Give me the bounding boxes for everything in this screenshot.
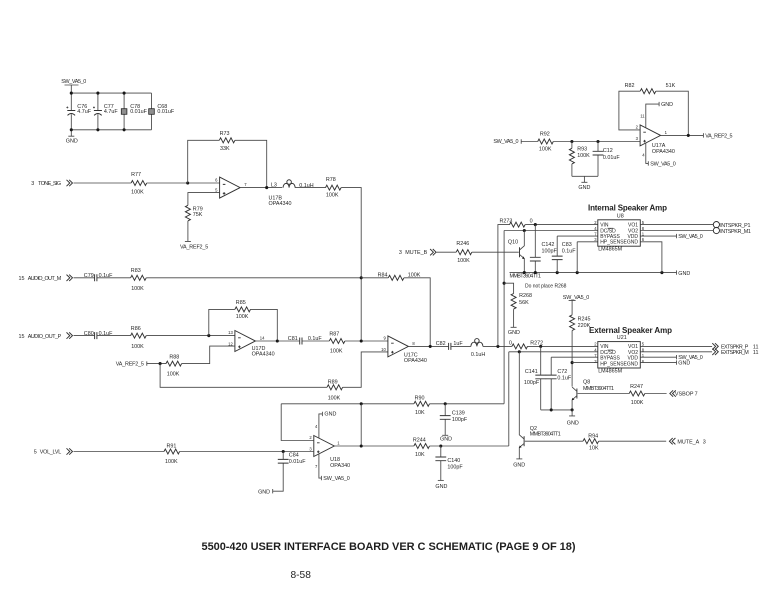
- wire port to C80: [74, 335, 95, 337]
- svg-text:HP_SENSE: HP_SENSE: [600, 240, 627, 246]
- resistor R82: [625, 83, 676, 94]
- wire R85 feedback loop: [209, 309, 277, 341]
- resistor R245: [570, 315, 591, 331]
- node VA_REF2_5 (R88 line): [116, 361, 166, 367]
- svg-text:1uF: 1uF: [453, 341, 463, 347]
- svg-text:0.01uF: 0.01uF: [289, 459, 306, 465]
- svg-text:Do not place R268: Do not place R268: [525, 283, 567, 289]
- wire U17B plus input to R79: [188, 193, 220, 206]
- svg-text:100K: 100K: [167, 372, 180, 378]
- wire R94 to MUTE_A port: [599, 440, 667, 442]
- wire R87 to U17C inverting input: [345, 340, 388, 342]
- wire U8 VO2 to INTSPKR_M1: [640, 230, 713, 232]
- node C139 junction: [444, 402, 447, 405]
- wire U21 VO1 to EXTSPKR_P: [640, 345, 712, 347]
- node R88/VA_REF junction: [159, 362, 162, 365]
- resistor R79: [185, 205, 202, 221]
- op-amp U17B: [215, 177, 291, 207]
- svg-text:R90: R90: [415, 396, 425, 402]
- capacitor C140: [435, 446, 463, 480]
- svg-text:100K: 100K: [236, 314, 249, 320]
- svg-text:GND: GND: [513, 462, 525, 468]
- capacitor C77: [93, 93, 118, 130]
- resistor R73: [219, 131, 235, 152]
- node C141 junction: [539, 345, 542, 348]
- ground (R93/C12): [572, 176, 598, 191]
- wire U17A bottom pin to SW_VA5_0: [642, 143, 675, 167]
- svg-text:C142: C142: [542, 242, 555, 248]
- svg-text:C140: C140: [447, 458, 460, 464]
- svg-text:INTSPKR_M1: INTSPKR_M1: [720, 229, 751, 235]
- capacitor C82: [436, 341, 464, 350]
- port AUDIO_OUT_P (sheet 15): [19, 332, 73, 339]
- node U17B minus junction: [186, 181, 189, 184]
- resistor R246: [456, 241, 472, 264]
- svg-text:GND: GND: [567, 421, 579, 427]
- wire Q8 base to R247: [578, 393, 630, 395]
- wire TONE_SIG to R77: [74, 182, 132, 184]
- wire U8 VO1 to INTSPKR_P1: [640, 224, 713, 226]
- svg-text:R86: R86: [131, 326, 141, 332]
- svg-text:OPA4340: OPA4340: [269, 201, 292, 207]
- resistor R273 (0 ohm, internal feed): [500, 218, 533, 227]
- node C84 junction: [282, 450, 285, 453]
- capacitor C78: [121, 93, 147, 130]
- wire VOL_LVL to R91: [74, 451, 165, 453]
- resistor R83: [131, 268, 147, 292]
- svg-text:0.1uH: 0.1uH: [471, 352, 485, 358]
- svg-text:GND: GND: [661, 102, 673, 108]
- wire R82 feedback loop: [619, 91, 688, 135]
- svg-text:C72: C72: [557, 369, 567, 375]
- svg-text:0.1uF: 0.1uF: [99, 273, 113, 279]
- svg-text:100K: 100K: [577, 153, 590, 159]
- svg-text:VSBOP: VSBOP: [675, 392, 694, 398]
- wire U18 output feedback vertical: [360, 404, 362, 446]
- svg-text:R88: R88: [169, 354, 179, 360]
- svg-text:R92: R92: [540, 131, 550, 137]
- svg-text:GND: GND: [627, 240, 639, 246]
- wire C79 to R83: [97, 277, 131, 279]
- capacitor C142: [530, 225, 558, 273]
- wire R273 to U8 VIN: [525, 224, 598, 226]
- port INTSPKR_P1: [713, 222, 750, 230]
- resistor R85: [235, 300, 251, 320]
- svg-text:C82: C82: [436, 341, 446, 347]
- svg-text:R268: R268: [519, 293, 532, 299]
- svg-text:10: 10: [381, 347, 386, 352]
- wire U17A output: [661, 134, 704, 136]
- resistor R247: [629, 384, 645, 406]
- capacitor C83 (bypass): [552, 236, 576, 273]
- wire R77 to U17B inverting input: [147, 182, 220, 184]
- capacitor C68: [149, 93, 175, 130]
- svg-text:MMBT3904TT1: MMBT3904TT1: [530, 432, 561, 438]
- wire volume V1 vertical (int DC/SD to R90): [503, 231, 505, 404]
- wire internal DC/SD line: [504, 230, 598, 232]
- wire U17D plus input to R88 line: [182, 346, 235, 364]
- svg-text:GND: GND: [258, 489, 270, 495]
- svg-text:100K: 100K: [539, 146, 552, 152]
- svg-text:AUDIO_OUT_M: AUDIO_OUT_M: [28, 276, 62, 282]
- node audio feed junction: [496, 345, 499, 348]
- node SW_VA5_0 (R245 pull-up): [563, 295, 590, 315]
- capacitor C72 (bypass): [546, 357, 572, 410]
- svg-text:75K: 75K: [193, 212, 203, 218]
- node SW_VA5_0 (U21 VDD): [640, 355, 703, 361]
- resistor R77: [131, 172, 147, 195]
- svg-text:C139: C139: [452, 410, 465, 416]
- op-amp U18: [309, 435, 350, 469]
- op-amp U17D: [228, 330, 274, 357]
- wire Q2 base to R94: [525, 440, 583, 442]
- inductor 0.1uH (external feed): [471, 339, 485, 358]
- wire C80 to R86: [97, 335, 131, 337]
- port MUTE_A (sheet 3): [669, 438, 705, 445]
- wire cap bank top rail: [71, 92, 151, 94]
- port INTSPKR_M1: [713, 227, 751, 235]
- svg-text:100pF: 100pF: [452, 417, 468, 423]
- wire R244 to V2 vertical: [430, 445, 509, 447]
- svg-text:MUTE_A: MUTE_A: [677, 439, 699, 445]
- wire MUTE_B to Q10 base: [472, 251, 519, 253]
- svg-text:33K: 33K: [220, 146, 230, 152]
- svg-text:10K: 10K: [589, 445, 599, 451]
- wire U21 BYPASS: [551, 356, 598, 358]
- svg-text:VA_REF2_5: VA_REF2_5: [116, 361, 144, 367]
- node C140 junction: [439, 444, 442, 447]
- svg-text:Q10: Q10: [508, 239, 518, 245]
- svg-text:R245: R245: [578, 316, 591, 322]
- wire inductor to VIN node: [483, 345, 512, 347]
- svg-text:0.1uF: 0.1uF: [557, 376, 571, 382]
- IC U21 LM4865M (external amp): [589, 326, 672, 375]
- svg-text:15: 15: [19, 276, 25, 282]
- node C12 junction: [596, 140, 599, 143]
- svg-text:GND: GND: [440, 437, 452, 443]
- wire U18 bottom pin to SW_VA5_0: [315, 454, 350, 482]
- svg-text:U18: U18: [330, 457, 340, 463]
- svg-text:5: 5: [34, 449, 37, 455]
- svg-text:0.1uF: 0.1uF: [99, 331, 113, 337]
- svg-text:MUTE_B: MUTE_B: [405, 250, 427, 256]
- junction dots cap bank: [70, 92, 126, 132]
- resistor R90: [414, 396, 430, 416]
- svg-text:R246: R246: [456, 241, 469, 247]
- resistor R84 (U17C feedback): [361, 273, 430, 347]
- resistor R244: [413, 438, 430, 458]
- svg-text:GND: GND: [678, 361, 690, 367]
- ground (cap bank): [66, 130, 78, 145]
- capacitor C139: [440, 404, 468, 436]
- svg-text:15: 15: [19, 334, 25, 340]
- svg-text:100K: 100K: [165, 459, 178, 465]
- ground (C140): [435, 480, 447, 490]
- svg-text:HP_SENSE: HP_SENSE: [600, 361, 627, 367]
- op-amp U17A: [636, 125, 675, 155]
- svg-text:GND: GND: [678, 271, 690, 277]
- node U17C output junction: [429, 345, 432, 348]
- transistor Q2 MMBT3904TT1: [519, 352, 561, 459]
- wire cap bank bottom rail: [71, 129, 151, 131]
- node R93 junction: [570, 140, 573, 143]
- wire U18 output to R244: [334, 445, 414, 447]
- node U17A output junction: [687, 134, 690, 137]
- wire U8 BYPASS: [557, 235, 598, 237]
- resistor R78: [326, 177, 342, 199]
- svg-text:10K: 10K: [415, 410, 425, 416]
- node U17D output junction: [276, 339, 279, 342]
- node VA_REF2_5 (U17A output): [703, 133, 732, 139]
- wire C81 to R87: [302, 340, 329, 342]
- resistor R92: [538, 131, 554, 152]
- wire external DC/SD line: [509, 351, 598, 353]
- op-amp U17C: [381, 336, 427, 365]
- svg-text:OPA340: OPA340: [330, 463, 350, 469]
- IC U8 LM4865M (internal amp): [588, 204, 667, 253]
- wire U8 HP_SENSE to GND rail: [577, 242, 598, 273]
- svg-text:13: 13: [228, 330, 233, 335]
- svg-text:SW_VA5_0: SW_VA5_0: [61, 79, 86, 85]
- wire L3 to R78: [295, 187, 325, 189]
- svg-text:SW_VA5_0: SW_VA5_0: [678, 234, 703, 240]
- svg-text:R89: R89: [328, 379, 338, 385]
- resistor R86: [131, 326, 147, 350]
- junction dots on GND rail: [523, 271, 664, 274]
- wire MUTE_B to R246: [437, 251, 457, 253]
- ground (internal rail label): [677, 270, 691, 276]
- transistor Q8 MMBT3904TT1: [572, 380, 614, 410]
- port EXTSPKR_M (sheet 11): [712, 349, 758, 356]
- svg-text:C84: C84: [289, 453, 299, 459]
- svg-text:AUDIO_OUT_P: AUDIO_OUT_P: [28, 334, 62, 340]
- svg-text:C81: C81: [288, 336, 298, 342]
- capacitor C141: [524, 346, 546, 410]
- node C72 bottom junction: [550, 408, 553, 411]
- svg-text:4.7uF: 4.7uF: [104, 109, 118, 115]
- svg-text:51K: 51K: [666, 83, 676, 89]
- port AUDIO_OUT_M (sheet 15): [19, 275, 73, 282]
- port VOL_LVL (sheet 5): [34, 448, 73, 455]
- svg-text:R244: R244: [413, 438, 426, 444]
- wire R272 to U21 VIN: [528, 345, 598, 347]
- ground (C84): [258, 489, 273, 495]
- node C142 junction: [534, 223, 537, 226]
- ground (R268): [508, 309, 520, 336]
- wire R86 to U17D inverting input: [146, 335, 235, 337]
- svg-text:C80: C80: [84, 331, 94, 337]
- wire U8 GND pin to rail: [640, 242, 662, 273]
- svg-text:3: 3: [31, 181, 34, 187]
- svg-text:100pF: 100pF: [447, 465, 463, 471]
- svg-text:0: 0: [509, 340, 512, 346]
- resistor R87: [329, 332, 345, 355]
- svg-text:GND: GND: [435, 484, 447, 490]
- svg-text:OPA4340: OPA4340: [404, 358, 427, 364]
- svg-text:TONE_SIG: TONE_SIG: [38, 181, 61, 187]
- ground (C139): [440, 435, 452, 442]
- capacitor C76: [66, 93, 91, 130]
- svg-text:7: 7: [695, 392, 698, 398]
- svg-text:OPA4340: OPA4340: [652, 149, 675, 155]
- svg-text:C12: C12: [603, 148, 613, 154]
- svg-text:100K: 100K: [326, 192, 339, 198]
- svg-text:100K: 100K: [131, 344, 144, 350]
- svg-text:R94: R94: [588, 434, 598, 440]
- svg-text:SW_VA5_0: SW_VA5_0: [323, 476, 350, 482]
- wire R92 to U17A plus input: [553, 141, 640, 143]
- wire external mini GND rail: [541, 409, 572, 411]
- svg-text:3: 3: [703, 439, 706, 445]
- resistor R268: [511, 293, 532, 309]
- svg-text:10K: 10K: [415, 452, 425, 458]
- svg-text:100K: 100K: [328, 396, 341, 402]
- ground (Q2 emitter): [513, 459, 525, 469]
- svg-text:External Speaker Amp: External Speaker Amp: [589, 326, 672, 335]
- capacitor C79: [84, 273, 113, 281]
- wire U21 HP_SENSE: [572, 362, 598, 364]
- wire internal GND rail: [510, 272, 677, 274]
- svg-text:VOL_LVL: VOL_LVL: [40, 449, 61, 455]
- svg-text:5500-420 USER INTERFACE BOARD: 5500-420 USER INTERFACE BOARD VER C SCHE…: [202, 541, 576, 553]
- svg-text:R78: R78: [326, 177, 336, 183]
- wire U17B output: [240, 187, 282, 189]
- transistor Q10 MMBT3904TT1: [508, 231, 541, 280]
- svg-text:100K: 100K: [631, 400, 644, 406]
- resistor R91: [164, 443, 180, 465]
- node U17B output junction: [265, 186, 268, 189]
- wire R89 to U17C plus input: [343, 352, 388, 387]
- wire to R268: [504, 283, 513, 293]
- node VA_REF2_5 (under R79): [180, 221, 208, 251]
- node HP_SENSE/Q8 junction: [571, 361, 574, 364]
- wire R245 down to HP_SENSE node and Q8 collector: [571, 331, 573, 387]
- svg-text:SW_VA5_0: SW_VA5_0: [563, 295, 590, 301]
- svg-text:11: 11: [640, 114, 645, 119]
- svg-text:GND: GND: [508, 330, 520, 336]
- port TONE_SIG (sheet 3): [31, 180, 72, 187]
- wire C82 to inductor: [451, 345, 471, 347]
- svg-text:C141: C141: [525, 369, 538, 375]
- svg-text:R73: R73: [220, 131, 230, 137]
- svg-text:56K: 56K: [519, 300, 529, 306]
- svg-text:0.01uF: 0.01uF: [130, 109, 147, 115]
- node U18 feedback junction: [360, 402, 363, 405]
- svg-text:8-58: 8-58: [291, 570, 312, 581]
- node AUDIO_OUT_M / R84 junction: [360, 276, 363, 279]
- svg-text:100K: 100K: [330, 349, 343, 355]
- wire port to C79: [74, 277, 95, 279]
- svg-text:100pF: 100pF: [542, 248, 558, 254]
- svg-text:0: 0: [530, 219, 533, 225]
- wire R90 volume line: [281, 403, 504, 405]
- wire volume V2 vertical (ext DC/SD to R244): [508, 352, 510, 446]
- node Q8 emitter junction: [571, 408, 574, 411]
- svg-text:U8: U8: [617, 213, 624, 219]
- port EXTSPKR_P (sheet 11): [712, 343, 758, 350]
- svg-text:SW_VA5_0: SW_VA5_0: [493, 139, 518, 145]
- ground (Q8 emitter): [567, 410, 579, 427]
- svg-text:R91: R91: [167, 443, 177, 449]
- svg-text:R87: R87: [329, 332, 339, 338]
- node SW_VA5_0 (cap bank supply label): [61, 79, 86, 93]
- svg-text:OPA4340: OPA4340: [252, 352, 275, 358]
- wire U18 top pin to GND: [315, 412, 336, 438]
- resistor R93: [569, 142, 590, 177]
- svg-text:R77: R77: [131, 172, 141, 178]
- wire R78 down to U17C inverting line: [341, 188, 361, 341]
- node U17C minus junction: [360, 339, 363, 342]
- node U17D minus junction: [207, 334, 210, 337]
- capacitor C80: [84, 331, 113, 339]
- resistor R272 (0 ohm, external feed): [509, 340, 543, 349]
- svg-text:R85: R85: [236, 300, 246, 306]
- node SW_VA5_0 (U8 VDD): [640, 234, 703, 240]
- capacitor C84: [273, 452, 307, 492]
- inductor L3 0.1uH: [271, 180, 314, 189]
- wire audio node up to R273: [498, 225, 510, 347]
- capacitor C12: [593, 142, 621, 177]
- svg-text:C83: C83: [562, 242, 572, 248]
- svg-text:U21: U21: [617, 335, 627, 341]
- port MUTE_B (sheet 3): [399, 249, 436, 256]
- wire R83 to junction: [146, 277, 361, 279]
- svg-text:12: 12: [228, 341, 233, 346]
- svg-text:R82: R82: [625, 83, 635, 89]
- resistor R94: [583, 434, 599, 452]
- svg-text:EXTSPKR_M: EXTSPKR_M: [721, 350, 749, 356]
- svg-text:GND: GND: [324, 412, 336, 418]
- svg-text:L3: L3: [271, 183, 277, 189]
- wire R73 feedback loop: [188, 140, 267, 187]
- svg-text:VA_REF2_5: VA_REF2_5: [180, 245, 208, 251]
- svg-text:VA_REF2_5: VA_REF2_5: [705, 134, 732, 140]
- svg-text:100pF: 100pF: [524, 380, 540, 386]
- svg-text:0.1uF: 0.1uF: [562, 248, 576, 254]
- svg-text:MMBT3904TT1: MMBT3904TT1: [583, 386, 614, 392]
- svg-text:4.7uF: 4.7uF: [77, 109, 91, 115]
- node R268 tap junction: [503, 282, 506, 285]
- svg-text:100K: 100K: [131, 286, 144, 292]
- svg-text:Internal Speaker Amp: Internal Speaker Amp: [588, 204, 667, 213]
- node Q10 collector junction: [523, 229, 526, 232]
- svg-text:GND: GND: [66, 139, 78, 145]
- wire U21 VO2 to EXTSPKR_M: [640, 351, 712, 353]
- wire R247 to VSBOP port: [645, 393, 667, 395]
- svg-text:3: 3: [399, 250, 402, 256]
- svg-text:14: 14: [260, 336, 265, 341]
- svg-text:100K: 100K: [457, 258, 470, 264]
- svg-text:11: 11: [753, 350, 759, 356]
- wire R91 to U18 plus input: [180, 451, 314, 453]
- wire U17A top pin to GND: [640, 102, 673, 128]
- node R244 line junction: [360, 444, 363, 447]
- svg-text:MMBT3904TT1: MMBT3904TT1: [510, 274, 542, 280]
- wire VA_REF down to R89 line: [160, 364, 327, 388]
- wire U18 minus feedback: [281, 404, 314, 441]
- node Q2 collector junction: [518, 350, 521, 353]
- wire U17C output: [408, 345, 448, 347]
- capacitor C81: [288, 336, 323, 344]
- svg-text:100K: 100K: [131, 189, 144, 195]
- svg-text:SW_VA5_0: SW_VA5_0: [650, 161, 675, 167]
- svg-text:R247: R247: [630, 384, 643, 390]
- svg-text:0.01uF: 0.01uF: [603, 155, 620, 161]
- svg-text:0.01uF: 0.01uF: [157, 109, 174, 115]
- resistor R89: [327, 379, 343, 401]
- svg-text:LM4865M: LM4865M: [598, 247, 622, 253]
- ground (U21 GND pin): [640, 360, 690, 366]
